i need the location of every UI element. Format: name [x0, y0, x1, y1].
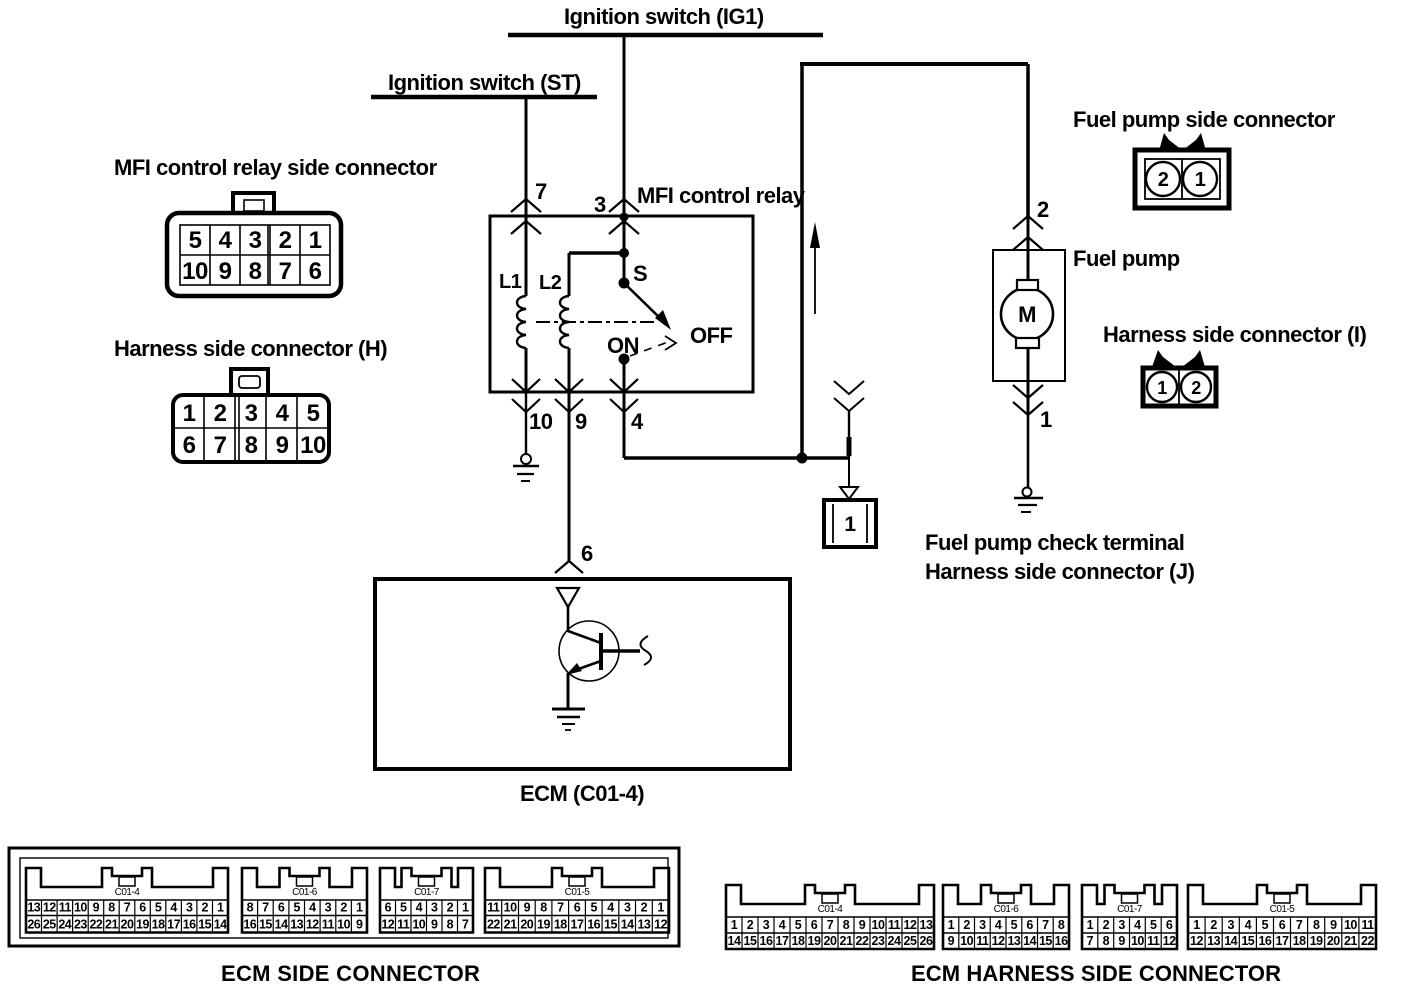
svg-text:22: 22 — [1361, 934, 1374, 948]
svg-text:24: 24 — [58, 918, 71, 932]
svg-text:10: 10 — [182, 258, 208, 285]
svg-text:6: 6 — [385, 901, 392, 915]
OFF contact chevron — [665, 336, 676, 350]
svg-text:8: 8 — [1313, 918, 1320, 932]
svg-text:C01-4: C01-4 — [115, 887, 141, 898]
svg-text:OFF: OFF — [690, 323, 733, 348]
svg-text:3: 3 — [594, 192, 606, 217]
connector ECM side C01-5 — [485, 868, 669, 933]
svg-text:11: 11 — [1361, 918, 1374, 932]
svg-text:2: 2 — [201, 901, 208, 915]
svg-text:C01-5: C01-5 — [565, 887, 591, 898]
svg-text:11: 11 — [487, 901, 500, 915]
svg-text:2: 2 — [340, 901, 347, 915]
svg-text:6: 6 — [183, 432, 196, 459]
svg-text:15: 15 — [1039, 934, 1052, 948]
svg-text:20: 20 — [1327, 934, 1340, 948]
svg-text:1: 1 — [309, 227, 322, 254]
svg-text:12: 12 — [904, 918, 917, 932]
svg-text:Fuel pump: Fuel pump — [1073, 246, 1180, 271]
connector ECM harness side C01-4 — [726, 885, 934, 949]
pin 3 of relay (connector chevrons) — [609, 199, 639, 212]
node S contact — [619, 278, 630, 289]
svg-text:2: 2 — [447, 901, 454, 915]
svg-text:13: 13 — [290, 918, 303, 932]
dashed arm ON position — [630, 342, 668, 356]
svg-text:11: 11 — [322, 918, 335, 932]
svg-text:4: 4 — [170, 901, 177, 915]
svg-text:21: 21 — [840, 934, 853, 948]
pin 10 of relay (connector chevrons) — [512, 379, 540, 392]
svg-text:7: 7 — [1087, 934, 1094, 948]
svg-text:6: 6 — [1279, 918, 1286, 932]
svg-text:16: 16 — [243, 918, 256, 932]
connector ECM side C01-6 — [242, 868, 367, 933]
svg-text:5: 5 — [307, 400, 320, 427]
svg-text:C01-6: C01-6 — [292, 887, 318, 898]
svg-text:7: 7 — [279, 258, 292, 285]
svg-text:17: 17 — [1276, 934, 1289, 948]
svg-text:1: 1 — [948, 918, 955, 932]
svg-text:Harness side connector (I): Harness side connector (I) — [1103, 322, 1366, 347]
svg-text:8: 8 — [247, 901, 254, 915]
junction dot at riser — [797, 453, 808, 464]
svg-text:21: 21 — [105, 918, 118, 932]
svg-text:22: 22 — [89, 918, 102, 932]
svg-text:Harness side connector (H): Harness side connector (H) — [114, 336, 387, 361]
wire IG1 bus — [508, 33, 823, 38]
svg-text:5: 5 — [400, 901, 407, 915]
svg-text:9: 9 — [1118, 934, 1125, 948]
wire ST bus — [371, 95, 597, 100]
svg-text:26: 26 — [920, 934, 933, 948]
svg-text:12: 12 — [654, 918, 667, 932]
svg-text:4: 4 — [219, 227, 233, 254]
svg-text:14: 14 — [275, 918, 288, 932]
pin 4 of relay (connector chevrons) — [610, 379, 638, 392]
svg-text:3: 3 — [325, 901, 332, 915]
svg-text:2: 2 — [641, 901, 648, 915]
svg-text:M: M — [1018, 302, 1036, 327]
svg-text:19: 19 — [537, 918, 550, 932]
wire ON contact down to pin 4 — [623, 359, 626, 392]
svg-text:13: 13 — [1007, 934, 1020, 948]
connector ECM side C01-4 — [26, 868, 228, 933]
connector ECM harness side C01-7 — [1082, 885, 1177, 949]
mechanical link dash-dot from coils to switch — [536, 321, 655, 323]
svg-text:1: 1 — [1193, 918, 1200, 932]
svg-text:ECM (C01-4): ECM (C01-4) — [520, 781, 644, 806]
svg-text:15: 15 — [259, 918, 272, 932]
svg-text:3: 3 — [431, 901, 438, 915]
inductor L1 relay coil — [525, 216, 528, 296]
inductor L2 relay coil — [568, 253, 571, 296]
svg-text:C01-4: C01-4 — [818, 904, 844, 915]
svg-text:8: 8 — [1058, 918, 1065, 932]
svg-text:16: 16 — [183, 918, 196, 932]
connector MFI relay side (pins 5-1/10-6) — [167, 193, 341, 296]
wire triangle to transistor — [567, 605, 570, 632]
svg-text:5: 5 — [1150, 918, 1157, 932]
svg-text:8: 8 — [245, 432, 258, 459]
svg-text:7: 7 — [1296, 918, 1303, 932]
svg-text:3: 3 — [624, 901, 631, 915]
svg-text:12: 12 — [306, 918, 319, 932]
svg-text:10: 10 — [1344, 918, 1357, 932]
svg-text:2: 2 — [1103, 918, 1110, 932]
svg-text:21: 21 — [504, 918, 517, 932]
svg-text:1: 1 — [1040, 407, 1052, 432]
svg-text:10: 10 — [300, 432, 326, 459]
svg-text:7: 7 — [557, 901, 564, 915]
svg-text:8: 8 — [249, 258, 262, 285]
svg-text:22: 22 — [856, 934, 869, 948]
svg-text:6: 6 — [309, 258, 322, 285]
svg-text:ECM HARNESS SIDE CONNECTOR: ECM HARNESS SIDE CONNECTOR — [911, 961, 1281, 986]
wire riser up from junction — [800, 64, 804, 458]
svg-text:MFI control relay: MFI control relay — [637, 183, 806, 208]
svg-text:12: 12 — [43, 901, 56, 915]
svg-text:1: 1 — [1157, 378, 1167, 398]
svg-text:3: 3 — [979, 918, 986, 932]
svg-text:16: 16 — [1055, 934, 1068, 948]
svg-text:10: 10 — [337, 918, 350, 932]
svg-text:MFI control relay side connect: MFI control relay side connector — [114, 155, 438, 180]
svg-text:14: 14 — [728, 934, 741, 948]
svg-text:10: 10 — [872, 918, 885, 932]
input triangle marker — [557, 588, 579, 607]
svg-text:2: 2 — [1191, 378, 1201, 398]
svg-text:6: 6 — [139, 901, 146, 915]
wire pin1 to ground — [1027, 415, 1030, 487]
pin 2 of fuel pump (connector chevrons) — [1013, 216, 1043, 229]
svg-text:5: 5 — [795, 918, 802, 932]
svg-text:15: 15 — [198, 918, 211, 932]
svg-text:20: 20 — [121, 918, 134, 932]
svg-text:10: 10 — [529, 409, 553, 434]
svg-text:3: 3 — [763, 918, 770, 932]
svg-text:7: 7 — [262, 901, 269, 915]
svg-text:2: 2 — [1037, 197, 1049, 222]
svg-text:16: 16 — [1258, 934, 1271, 948]
svg-text:5: 5 — [155, 901, 162, 915]
svg-text:22: 22 — [487, 918, 500, 932]
svg-text:11: 11 — [888, 918, 901, 932]
connector harness side H (pins 1-5/6-10) — [173, 369, 329, 462]
svg-text:20: 20 — [520, 918, 533, 932]
svg-text:7: 7 — [462, 918, 469, 932]
svg-text:Ignition switch (IG1): Ignition switch (IG1) — [564, 4, 764, 29]
svg-text:11: 11 — [1147, 934, 1160, 948]
svg-text:8: 8 — [447, 918, 454, 932]
svg-text:13: 13 — [920, 918, 933, 932]
switch arm from S toward OFF — [624, 283, 662, 320]
wire check terminal stub — [848, 411, 850, 458]
svg-text:13: 13 — [637, 918, 650, 932]
svg-text:3: 3 — [245, 400, 258, 427]
svg-text:7: 7 — [827, 918, 834, 932]
svg-text:20: 20 — [824, 934, 837, 948]
svg-text:21: 21 — [1344, 934, 1357, 948]
wire top link over to fuel pump — [800, 62, 1028, 66]
wire S contact feed — [623, 216, 626, 280]
svg-text:3: 3 — [186, 901, 193, 915]
svg-text:25: 25 — [43, 918, 56, 932]
svg-text:5: 5 — [1262, 918, 1269, 932]
connector harness side I (pins 1,2) — [1143, 350, 1216, 406]
svg-text:13: 13 — [27, 901, 40, 915]
svg-text:15: 15 — [604, 918, 617, 932]
svg-text:7: 7 — [1042, 918, 1049, 932]
svg-text:18: 18 — [792, 934, 805, 948]
svg-text:4: 4 — [631, 409, 644, 434]
connector ECM harness side C01-5 — [1188, 885, 1376, 949]
svg-text:9: 9 — [948, 934, 955, 948]
fuel pump check terminal antenna chevrons — [834, 381, 864, 394]
svg-text:11: 11 — [59, 901, 72, 915]
wire from IG1 bus down to relay pin 3 — [623, 35, 626, 216]
svg-text:4: 4 — [276, 400, 290, 427]
svg-text:1: 1 — [462, 901, 469, 915]
svg-text:6: 6 — [1026, 918, 1033, 932]
wire pin9 down to ECM pin 6 — [568, 392, 571, 561]
wire drop to fuel pump — [1026, 64, 1030, 216]
svg-text:C01-6: C01-6 — [994, 904, 1020, 915]
svg-text:9: 9 — [575, 409, 587, 434]
svg-text:10: 10 — [74, 901, 87, 915]
svg-text:Fuel pump side connector: Fuel pump side connector — [1073, 107, 1336, 132]
svg-text:L1: L1 — [499, 271, 522, 293]
wire motor to pin1 — [1027, 348, 1030, 415]
svg-text:10: 10 — [1131, 934, 1144, 948]
svg-text:C01-7: C01-7 — [1117, 904, 1143, 915]
svg-text:1: 1 — [217, 901, 224, 915]
svg-text:12: 12 — [1190, 934, 1203, 948]
svg-text:5: 5 — [293, 901, 300, 915]
svg-text:12: 12 — [381, 918, 394, 932]
svg-text:12: 12 — [992, 934, 1005, 948]
svg-text:12: 12 — [1163, 934, 1176, 948]
svg-text:16: 16 — [587, 918, 600, 932]
wire pin4 down — [623, 392, 626, 458]
svg-text:7: 7 — [214, 432, 227, 459]
svg-text:2: 2 — [279, 227, 292, 254]
svg-text:4: 4 — [607, 901, 614, 915]
svg-text:9: 9 — [356, 918, 363, 932]
svg-text:14: 14 — [621, 918, 634, 932]
svg-text:4: 4 — [995, 918, 1002, 932]
svg-text:19: 19 — [136, 918, 149, 932]
svg-text:9: 9 — [859, 918, 866, 932]
ground below relay pin 10 — [521, 454, 531, 464]
svg-text:9: 9 — [524, 901, 531, 915]
svg-text:10: 10 — [960, 934, 973, 948]
svg-text:18: 18 — [1293, 934, 1306, 948]
svg-text:1: 1 — [657, 901, 664, 915]
svg-text:2: 2 — [747, 918, 754, 932]
svg-text:17: 17 — [167, 918, 180, 932]
svg-text:8: 8 — [108, 901, 115, 915]
svg-text:18: 18 — [554, 918, 567, 932]
svg-text:15: 15 — [1241, 934, 1254, 948]
pin 7 of relay (connector chevrons) — [511, 199, 541, 212]
svg-text:1: 1 — [183, 400, 196, 427]
svg-text:4: 4 — [309, 901, 316, 915]
svg-text:17: 17 — [776, 934, 789, 948]
svg-text:Fuel pump check terminal: Fuel pump check terminal — [925, 530, 1184, 555]
svg-text:8: 8 — [540, 901, 547, 915]
svg-text:2: 2 — [1210, 918, 1217, 932]
svg-text:3: 3 — [1227, 918, 1234, 932]
svg-text:1: 1 — [844, 513, 856, 536]
svg-text:Harness side connector (J): Harness side connector (J) — [925, 559, 1195, 584]
svg-text:19: 19 — [1310, 934, 1323, 948]
svg-text:14: 14 — [214, 918, 227, 932]
svg-text:25: 25 — [904, 934, 917, 948]
svg-text:9: 9 — [276, 432, 289, 459]
relay K1 MFI control relay box — [490, 216, 753, 392]
wire L2 top link to S wire — [569, 251, 624, 255]
svg-text:15: 15 — [744, 934, 757, 948]
svg-text:Ignition switch (ST): Ignition switch (ST) — [388, 70, 581, 95]
svg-text:14: 14 — [1224, 934, 1237, 948]
svg-text:3: 3 — [249, 227, 262, 254]
fuel pump box — [993, 250, 1065, 381]
svg-text:10: 10 — [504, 901, 517, 915]
wire into motor — [1027, 216, 1030, 288]
transistor Q1 — [559, 621, 619, 681]
svg-text:1: 1 — [1195, 169, 1206, 191]
svg-text:4: 4 — [1134, 918, 1141, 932]
connector ECM side C01-7 — [380, 868, 473, 933]
pin 6 of ECM (connector chevron) — [555, 561, 583, 573]
svg-text:5: 5 — [189, 227, 202, 254]
svg-text:1: 1 — [356, 901, 363, 915]
connector fuel pump side (pins 2,1) — [1135, 133, 1229, 208]
svg-text:6: 6 — [581, 541, 593, 566]
svg-text:6: 6 — [1166, 918, 1173, 932]
svg-text:9: 9 — [93, 901, 100, 915]
svg-text:14: 14 — [1023, 934, 1036, 948]
svg-text:23: 23 — [74, 918, 87, 932]
connector ECM harness side C01-6 — [943, 885, 1069, 949]
svg-text:L2: L2 — [539, 272, 562, 294]
svg-text:4: 4 — [416, 901, 423, 915]
svg-text:7: 7 — [535, 179, 547, 204]
svg-text:17: 17 — [571, 918, 584, 932]
svg-text:6: 6 — [278, 901, 285, 915]
svg-text:26: 26 — [27, 918, 40, 932]
svg-text:6: 6 — [574, 901, 581, 915]
svg-text:7: 7 — [124, 901, 131, 915]
svg-text:1: 1 — [1087, 918, 1094, 932]
junction pin3/box — [620, 213, 629, 222]
connector J box with terminal 1 — [824, 500, 876, 547]
svg-text:4: 4 — [1245, 918, 1252, 932]
svg-text:2: 2 — [214, 400, 227, 427]
wire pin4 horizontal run to check terminal — [624, 456, 849, 460]
pin 1 of fuel pump (connector chevrons) — [1013, 385, 1043, 398]
svg-text:9: 9 — [1330, 918, 1337, 932]
svg-text:23: 23 — [872, 934, 885, 948]
ground inside ECM — [552, 708, 585, 711]
svg-text:11: 11 — [397, 918, 410, 932]
svg-text:2: 2 — [963, 918, 970, 932]
svg-text:6: 6 — [811, 918, 818, 932]
svg-text:1: 1 — [731, 918, 738, 932]
pin 9 of relay (connector chevrons) — [555, 379, 583, 392]
svg-text:24: 24 — [888, 934, 901, 948]
svg-text:9: 9 — [431, 918, 438, 932]
svg-text:18: 18 — [152, 918, 165, 932]
svg-text:C01-7: C01-7 — [414, 887, 440, 898]
wire emitter to ground — [567, 673, 570, 708]
svg-text:8: 8 — [843, 918, 850, 932]
current direction arrow — [814, 246, 816, 314]
svg-text:10: 10 — [412, 918, 425, 932]
svg-text:C01-5: C01-5 — [1270, 904, 1296, 915]
ECM box — [375, 579, 790, 769]
svg-text:ECM SIDE CONNECTOR: ECM SIDE CONNECTOR — [221, 961, 480, 986]
svg-text:3: 3 — [1118, 918, 1125, 932]
svg-text:5: 5 — [590, 901, 597, 915]
connector J arrow — [840, 487, 858, 499]
wire collector output — [601, 649, 640, 653]
svg-text:5: 5 — [1011, 918, 1018, 932]
svg-text:4: 4 — [779, 918, 786, 932]
svg-text:S: S — [633, 261, 647, 286]
wire pin10 to ground — [525, 392, 527, 454]
svg-text:11: 11 — [976, 934, 989, 948]
connector ECM side outer box — [9, 848, 679, 946]
svg-text:13: 13 — [1207, 934, 1220, 948]
svg-text:2: 2 — [1158, 169, 1169, 191]
svg-text:16: 16 — [760, 934, 773, 948]
ground below fuel pump — [1023, 488, 1032, 497]
svg-text:8: 8 — [1103, 934, 1110, 948]
motor M of fuel pump — [1001, 288, 1053, 340]
svg-text:9: 9 — [219, 258, 232, 285]
wire from ST bus down to relay pin 7 — [525, 97, 528, 216]
svg-text:19: 19 — [808, 934, 821, 948]
